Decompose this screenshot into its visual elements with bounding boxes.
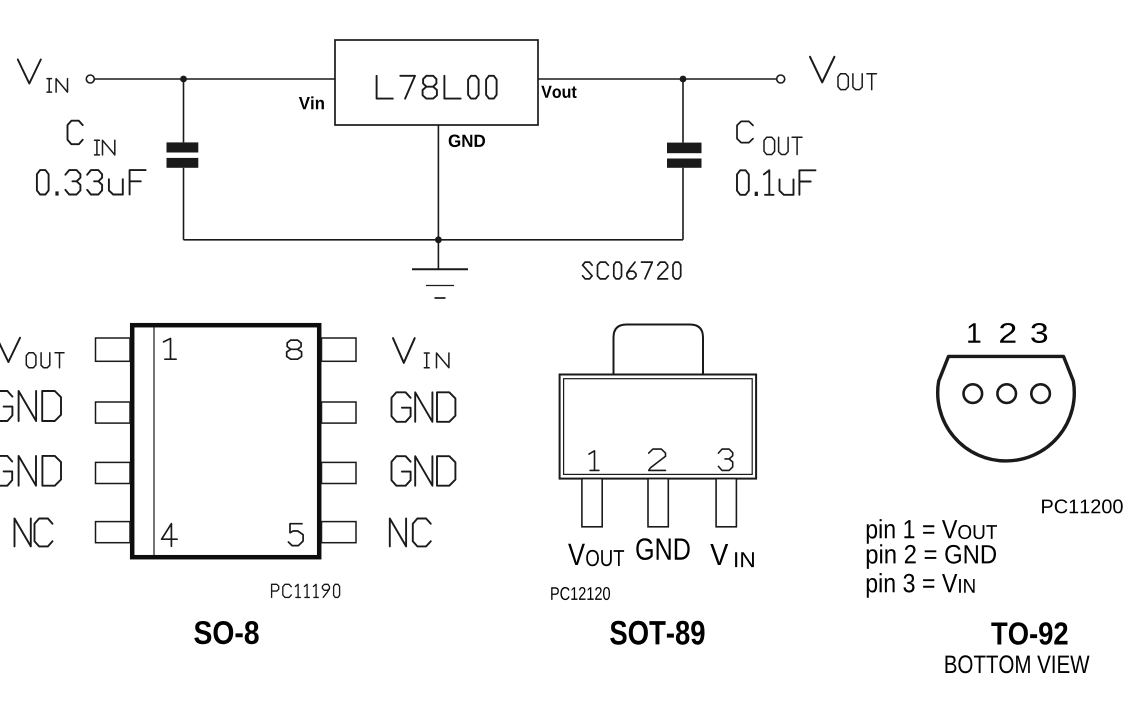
label "sot89 VIN sub" xyxy=(735,552,754,567)
SOT-89 lead pin 1 xyxy=(582,479,602,527)
label "pin 1 = VOUT" xyxy=(867,519,958,544)
label "pin number 5" xyxy=(288,524,303,546)
label "GND pin label" xyxy=(449,135,485,148)
capacitor C2 COUT plates xyxy=(667,143,702,154)
SO-8 left pad pin 2 xyxy=(96,402,131,423)
TO-92 outline bottom view xyxy=(938,356,1075,461)
label "so8 VOUT sub" xyxy=(26,353,64,368)
label "PC11190" xyxy=(272,584,340,597)
label "VOUT sub" xyxy=(838,74,877,90)
label "COUT C" xyxy=(737,121,753,142)
wire input node down to CIN xyxy=(183,79,185,142)
label "PC11200" xyxy=(1042,499,1123,513)
SO-8 pin1 side line xyxy=(153,328,155,556)
SOT-89 body outer xyxy=(560,375,757,479)
wire IC Vout pin to output node xyxy=(538,78,777,80)
label "sot89 pin 2" xyxy=(649,449,666,470)
label "so8 GND right1" xyxy=(392,392,456,422)
label "so8 VIN V" xyxy=(393,338,415,363)
label "VIN sub" xyxy=(47,79,68,93)
node VIN input terminal xyxy=(86,75,94,83)
SOT-89 body inner line xyxy=(564,379,753,475)
label "sot89 pin 3" xyxy=(718,449,732,470)
label "sot89 VOUT V" xyxy=(568,544,585,565)
label "pin 2 = GND" xyxy=(867,544,996,569)
wire CIN to ground rail xyxy=(183,168,185,240)
label "BOTTOM VIEW caption" xyxy=(946,655,1090,673)
label "TO-92 caption" xyxy=(991,622,1067,645)
SO-8 left pad pin 1 xyxy=(96,338,131,361)
label "so8 VOUT V" xyxy=(0,338,20,362)
SO-8 left pad pin 4 xyxy=(96,522,131,543)
SO-8 right pad pin 8 xyxy=(322,338,357,361)
SOT-89 tab xyxy=(614,325,704,375)
label "sot89 VIN V" xyxy=(710,544,728,565)
capacitor C1 CIN plates xyxy=(167,142,199,152)
label "so8 NC left" xyxy=(15,519,53,547)
label "so8 VIN sub" xyxy=(424,353,449,368)
SOT-89 lead pin 2 xyxy=(648,479,668,527)
label "PC12120" xyxy=(551,587,610,600)
label "CIN C" xyxy=(68,121,83,145)
label "Vin pin label" xyxy=(299,96,324,109)
SO-8 right pad pin 6 xyxy=(322,462,357,483)
label "sot89 GND label" xyxy=(636,538,689,560)
label "SC06720" xyxy=(583,262,681,279)
junction output node xyxy=(680,76,687,83)
label "COUT sub" xyxy=(764,137,802,154)
label "so8 GND left1" xyxy=(0,391,61,421)
wire stub to ground symbol xyxy=(437,240,439,269)
label "Vout pin label" xyxy=(541,86,576,98)
TO-92 pin 3 hole xyxy=(1031,384,1050,403)
regulator U1 L78L00 box xyxy=(335,40,538,125)
TO-92 pin 2 hole xyxy=(997,384,1016,403)
ground symbol xyxy=(412,268,468,270)
junction ground node xyxy=(435,236,442,243)
label "CIN value" xyxy=(37,170,146,194)
label "SO-8 caption" xyxy=(194,621,258,644)
label "VIN V" xyxy=(18,60,41,84)
label "VOUT V" xyxy=(810,57,834,83)
wire COUT to ground rail xyxy=(682,168,684,240)
label "so8 GND right2" xyxy=(392,456,456,486)
label "pin number 8" xyxy=(287,340,302,359)
label "CIN sub" xyxy=(95,140,115,155)
SO-8 right pad pin 7 xyxy=(322,402,357,423)
label "SOT-89 caption" xyxy=(610,621,704,645)
label "COUT value" xyxy=(737,170,816,195)
label "sot89 VOUT sub" xyxy=(586,550,624,566)
wire IC GND pin down to rail xyxy=(437,125,439,240)
TO-92 pin 1 hole xyxy=(964,384,983,403)
wire VIN terminal to IC Vin pin xyxy=(95,78,336,80)
label "L78L00" xyxy=(377,76,497,99)
label "so8 GND left2" xyxy=(0,456,61,486)
wire output node down to COUT xyxy=(682,79,684,143)
SO-8 package body xyxy=(132,325,319,557)
SO-8 right pad pin 5 xyxy=(322,522,357,543)
label "pin 3 = VIN" xyxy=(867,573,958,598)
junction input node xyxy=(180,76,187,83)
label "sot89 pin 1" xyxy=(589,451,599,471)
wire ground rail xyxy=(184,239,684,241)
label "pin number 4" xyxy=(162,524,178,547)
SOT-89 lead pin 3 xyxy=(716,479,736,527)
label "to92 pin 3 number" xyxy=(1031,323,1047,343)
SO-8 left pad pin 3 xyxy=(96,462,131,483)
node VOUT output terminal xyxy=(777,75,785,83)
label "pin number 1" xyxy=(164,339,177,360)
label "to92 pin 1 number" xyxy=(968,323,980,342)
label "to92 pin 2 number" xyxy=(1000,323,1015,343)
label "so8 NC right" xyxy=(390,519,431,547)
